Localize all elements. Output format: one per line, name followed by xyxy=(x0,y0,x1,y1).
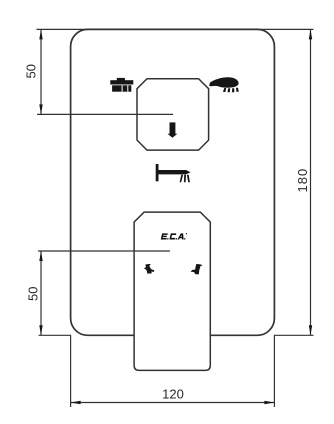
down arrow in control square xyxy=(168,122,178,137)
svg-text:120: 120 xyxy=(162,387,184,402)
svg-text:50: 50 xyxy=(26,287,41,301)
extension line top-left xyxy=(37,28,91,30)
lever handle icon xyxy=(156,164,191,182)
handle escutcheon (bottom rectangle) xyxy=(134,212,210,370)
dimension line 50 upper xyxy=(39,29,42,114)
svg-text:50: 50 xyxy=(24,64,39,78)
left small icon (spout pictogram) xyxy=(144,264,154,274)
dimension text 50 upper xyxy=(24,64,39,78)
dimension line 180 xyxy=(309,29,312,335)
svg-text:180: 180 xyxy=(295,168,310,193)
dimension text 180 xyxy=(295,168,310,193)
extension line top-right xyxy=(256,28,314,30)
ECA logo xyxy=(161,233,187,239)
diverter control square xyxy=(137,79,209,150)
extension line into escutcheon xyxy=(38,250,170,252)
extension line into control square xyxy=(37,113,173,115)
extension line bottom dim left xyxy=(70,335,72,407)
extension line bottom dim right xyxy=(273,335,275,407)
bath spout icon xyxy=(110,78,133,92)
hand shower icon xyxy=(209,77,239,92)
dimension text 120 xyxy=(162,387,184,402)
dimension text 50 lower xyxy=(26,287,41,301)
trim plate outline xyxy=(71,29,275,335)
extension line bottom-left xyxy=(39,334,72,336)
right small icon (shower pictogram) xyxy=(191,264,203,274)
dimension line 120 xyxy=(71,401,275,404)
extension line bottom-right xyxy=(274,334,314,336)
dimension line 50 lower xyxy=(39,251,42,335)
